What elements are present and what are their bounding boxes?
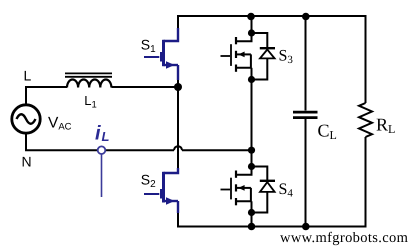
- wire N line from source to hop: [26, 134, 174, 151]
- svg-text:VAC: VAC: [48, 115, 72, 133]
- wire S4 source to bottom rail: [251, 213, 253, 228]
- node L-leg midpoint: [174, 83, 182, 91]
- node S4 source-diode: [248, 209, 255, 216]
- wire left leg through hop: [177, 79, 179, 170]
- transistor S4: [221, 167, 252, 213]
- AC source VAC: [12, 105, 40, 133]
- svg-text:L: L: [102, 129, 110, 144]
- node S4 drain-diode: [248, 163, 255, 170]
- capacitor CL: [293, 112, 318, 118]
- wire middle leg S3 source to N node: [251, 80, 253, 151]
- svg-text:RL: RL: [376, 115, 395, 137]
- transistor S1: [144, 28, 178, 80]
- wire middle leg top: [251, 16, 253, 33]
- svg-text:CL: CL: [318, 121, 337, 143]
- wire L line from inductor to node: [112, 86, 179, 88]
- svg-text:L1: L1: [84, 93, 97, 111]
- diode D3 body diode of S3: [252, 33, 276, 80]
- current probe iL: [98, 146, 106, 197]
- node top rail at CL: [302, 13, 310, 21]
- transistor S2: [144, 168, 178, 213]
- wire hop over left leg: [174, 146, 182, 150]
- inductor L1: [65, 73, 112, 87]
- wire N node to S4 drain: [251, 150, 253, 166]
- svg-text:i: i: [95, 123, 101, 145]
- wire CL bottom lead: [305, 119, 307, 227]
- node S3 drain-diode: [248, 29, 255, 36]
- wire top rail: [178, 16, 366, 103]
- diode D4 body diode of S4: [252, 167, 276, 213]
- node top rail at S3: [247, 13, 255, 21]
- wire L line from source to inductor: [26, 87, 67, 105]
- svg-text:S4: S4: [279, 181, 294, 200]
- wire bottom rail: [178, 137, 366, 227]
- wire CL top lead: [305, 16, 307, 111]
- svg-text:N: N: [22, 154, 32, 170]
- svg-text:S2: S2: [141, 172, 156, 191]
- svg-text:L: L: [24, 68, 32, 84]
- wire N line from hop to middle leg node: [182, 149, 252, 151]
- node bottom rail at CL: [302, 223, 310, 231]
- svg-text:S3: S3: [279, 48, 294, 67]
- node S3 source-diode: [248, 76, 255, 83]
- node bottom rail at S4: [248, 223, 256, 231]
- resistor RL: [359, 103, 372, 137]
- transistor S3: [221, 33, 252, 80]
- svg-text:www.mfgrobots.com: www.mfgrobots.com: [280, 230, 409, 246]
- svg-text:S1: S1: [141, 37, 156, 56]
- node N at middle leg: [248, 147, 255, 154]
